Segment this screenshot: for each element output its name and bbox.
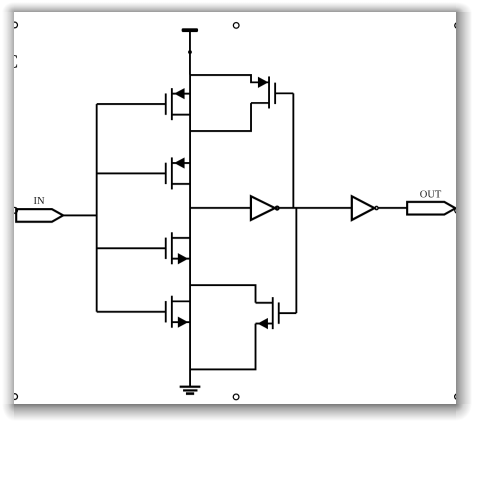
svg-text:C: C: [14, 51, 18, 73]
svg-text:OUT: OUT: [419, 190, 441, 201]
svg-text:IN: IN: [33, 196, 44, 207]
